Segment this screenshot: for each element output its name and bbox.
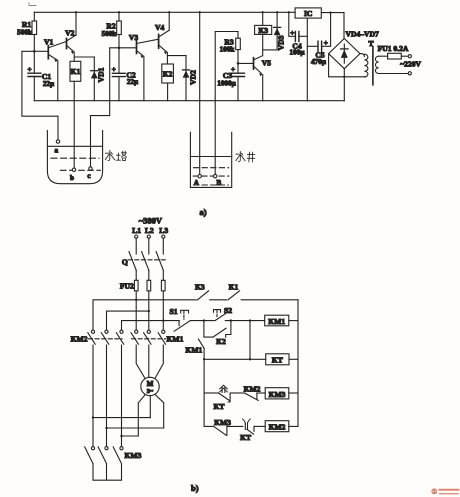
wire delta crossover links: [93, 418, 164, 436]
water tower tank: [47, 131, 102, 184]
svg-text:KM2: KM2: [71, 334, 88, 343]
IC regulator box: [295, 8, 321, 101]
wire phase L3 down: [162, 291, 164, 330]
wire to coil KM3: [257, 392, 265, 394]
electrode B: [214, 174, 222, 186]
svg-text:500k: 500k: [17, 28, 32, 36]
wire KM3 to KT contact: [227, 425, 243, 427]
svg-text:S1: S1: [169, 307, 177, 316]
wire to electrode a: [22, 51, 58, 140]
wire motor to crossover: [138, 395, 163, 436]
coil KM2: [265, 421, 298, 432]
capacitor C5: [307, 13, 330, 66]
wire control feed line2: [107, 311, 149, 330]
wire rung2: [203, 358, 266, 360]
wire Q to FU2: [136, 270, 163, 280]
water well tank: [190, 132, 231, 187]
transformer T secondary winding: [375, 56, 378, 73]
svg-text:1000µ: 1000µ: [217, 79, 236, 87]
wire electrode B to R3: [215, 32, 238, 175]
contactor KM1 main poles: [131, 330, 184, 344]
pushbutton S2: [214, 306, 233, 321]
electrode b: [70, 168, 76, 182]
electrode a: [55, 140, 60, 155]
node V3 base: [118, 47, 121, 50]
svg-text:100µ: 100µ: [290, 49, 306, 57]
svg-text:K3: K3: [195, 282, 205, 291]
wire phase L1 down to KM1 pole: [135, 291, 137, 330]
wire KM2 pole drops: [92, 345, 123, 447]
svg-text:K3: K3: [258, 26, 268, 35]
svg-text:~220V: ~220V: [400, 60, 421, 69]
svg-text:100k: 100k: [220, 46, 235, 54]
transistor V4: [155, 12, 169, 64]
wire bottom common rail: [34, 100, 344, 102]
svg-text:KM3: KM3: [269, 390, 286, 399]
svg-text:VD3: VD3: [276, 35, 285, 50]
label water well: [236, 152, 255, 162]
svg-text:500k: 500k: [102, 30, 117, 38]
svg-text:B: B: [216, 179, 221, 187]
svg-text:K1: K1: [71, 67, 81, 76]
contact K1: [228, 282, 240, 300]
wire phase drops to Q: [136, 238, 163, 254]
svg-text:470µ: 470µ: [311, 58, 327, 66]
transformer core: [368, 39, 373, 85]
svg-text:c: c: [87, 172, 91, 180]
resistor R1: [17, 12, 36, 50]
svg-text:V5: V5: [262, 59, 271, 68]
wire S1 to S2: [190, 319, 215, 321]
capacitor C2: [112, 48, 139, 101]
fuse FU1: [378, 44, 409, 59]
diode VD1: [74, 57, 105, 101]
svg-text:VD4–VD7: VD4–VD7: [346, 30, 380, 39]
wire IC output to bridge: [321, 11, 344, 38]
svg-text:KM1: KM1: [185, 346, 202, 355]
capacitor C3: [217, 63, 244, 100]
svg-text:IC: IC: [304, 9, 312, 18]
transistor V3: [119, 33, 158, 101]
wire rung4 left: [204, 425, 214, 427]
svg-text:KM1: KM1: [167, 334, 184, 343]
svg-text:T: T: [368, 39, 373, 48]
svg-text:KT: KT: [240, 433, 251, 442]
svg-text:KM2: KM2: [269, 423, 286, 432]
wire top supply rail: [34, 11, 295, 13]
switch Q: [122, 252, 168, 271]
terminal L2: [145, 226, 154, 238]
svg-text:K2: K2: [163, 70, 173, 79]
node V1 base: [33, 50, 36, 53]
fuse FU2: [120, 280, 165, 291]
svg-text:+: +: [27, 66, 31, 74]
svg-text:22µ: 22µ: [43, 80, 55, 88]
svg-text:K1: K1: [229, 282, 239, 291]
wire star point bar: [93, 465, 122, 481]
svg-text:+: +: [324, 39, 328, 47]
pushbutton S1: [169, 307, 190, 332]
wire control feed line1: [93, 300, 298, 330]
label water tower: [105, 151, 126, 161]
svg-text:~380V: ~380V: [139, 216, 163, 226]
svg-text:A: A: [194, 179, 200, 187]
terminal L1: [132, 226, 141, 238]
contact KM2 NC: [244, 384, 261, 400]
svg-text:V1: V1: [44, 38, 53, 47]
watermark logo: [432, 489, 459, 494]
wire to electrode A: [199, 12, 201, 174]
wire S2 to coil KM1: [225, 319, 264, 321]
diode VD2: [167, 56, 197, 101]
svg-text:b): b): [191, 483, 199, 493]
svg-text:Q: Q: [122, 257, 128, 266]
contactor KM2 main poles: [71, 330, 124, 344]
contact KT on-delay: [214, 385, 231, 411]
transformer T primary winding: [360, 54, 368, 77]
svg-text:KM2: KM2: [244, 384, 261, 393]
svg-text:L3: L3: [159, 226, 168, 235]
svg-text:V3: V3: [129, 33, 138, 42]
resistor R2: [102, 12, 122, 47]
svg-text:a: a: [55, 147, 59, 155]
coil KM3: [265, 388, 298, 399]
svg-text:+: +: [290, 29, 294, 37]
electrode A: [194, 175, 202, 187]
svg-text:VD2: VD2: [189, 70, 198, 85]
scan artifact mark: [29, 3, 36, 6]
svg-text:K2: K2: [216, 337, 226, 346]
svg-text:VD1: VD1: [97, 67, 106, 82]
contactor KM3 star poles: [85, 447, 142, 464]
wire right rail: [297, 300, 299, 427]
svg-text:+: +: [112, 66, 116, 74]
contact KM3 NO: [214, 418, 232, 435]
wire phase L2 down: [148, 291, 150, 330]
contact KM1 self-hold: [185, 339, 204, 426]
wire node to KT rung: [249, 321, 251, 360]
wire to coil KM2: [254, 425, 265, 427]
wire control feed line3 / rung1: [122, 321, 180, 331]
terminal ~220V top: [408, 55, 411, 58]
svg-text:V4: V4: [155, 23, 164, 32]
wire rung3 left: [204, 392, 218, 394]
relay coil K1: [70, 61, 81, 100]
svg-text:KM1: KM1: [268, 317, 285, 326]
svg-text:a): a): [199, 207, 206, 217]
capacitor C4: [289, 12, 308, 56]
svg-text:FU2: FU2: [120, 282, 134, 291]
electrode c: [87, 167, 92, 180]
coil KM1: [265, 315, 298, 326]
svg-text:b: b: [70, 174, 74, 182]
node V5 base: [237, 62, 240, 65]
svg-text:KT: KT: [272, 356, 283, 365]
wire KT to KM2 contact: [230, 392, 244, 394]
svg-text:KM3: KM3: [125, 451, 142, 460]
transistor V2: [65, 12, 76, 61]
svg-text:L2: L2: [145, 226, 154, 235]
resistor R3: [220, 37, 241, 63]
wire to electrode c: [91, 48, 120, 167]
svg-text:M: M: [147, 380, 154, 388]
svg-text:L1: L1: [132, 226, 141, 235]
svg-text:22µ: 22µ: [127, 78, 139, 86]
svg-text:V2: V2: [65, 29, 74, 38]
wire to electrode b: [73, 101, 75, 168]
relay coil K3: [255, 12, 272, 55]
coil KT: [266, 354, 298, 365]
svg-text:3~: 3~: [147, 388, 154, 395]
transistor V1: [34, 38, 66, 101]
svg-text:KT: KT: [214, 402, 225, 411]
wire bridge negative to rail: [329, 54, 366, 101]
motor M 3~: [141, 377, 159, 395]
contact K3: [195, 282, 209, 300]
svg-text:FU1 0.2A: FU1 0.2A: [378, 44, 409, 53]
diode VD3: [263, 12, 286, 50]
capacitor C1: [27, 51, 55, 100]
relay coil K2: [162, 64, 174, 101]
terminal L3: [159, 226, 168, 238]
terminal ~220V bottom: [379, 60, 422, 75]
contact KT off-delay NC: [240, 419, 254, 442]
bridge rectifier VD4-VD7: [329, 30, 379, 69]
transistor V5: [238, 56, 271, 101]
contact K2: [204, 321, 231, 346]
svg-text:S2: S2: [224, 306, 232, 315]
wire KM1 poles to motor: [136, 345, 163, 379]
